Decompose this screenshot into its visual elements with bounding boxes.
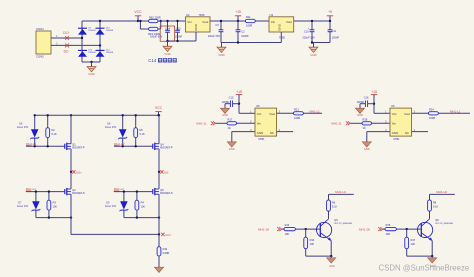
net label MH1-2H [359,227,383,231]
regulator U2 7815 [186,13,211,32]
svg-text:DC-: DC- [64,49,70,53]
svg-text:U6: U6 [391,104,395,108]
svg-text:MH1-2H: MH1-2H [359,228,370,232]
svg-text:5.1K: 5.1K [332,206,337,209]
wire drain Q4 [158,149,160,172]
wire U2 gnd pin [195,32,197,41]
wire [396,228,420,230]
wire [210,20,330,22]
power VCC (bridge) [155,106,163,115]
ground bridge [87,62,96,76]
ground U6 [362,142,371,151]
svg-text:0.68R: 0.68R [163,252,170,255]
transistor Q6 [317,219,353,241]
svg-text:MOSFET-N: MOSFET-N [72,192,85,195]
svg-text:MH1-1L: MH1-1L [196,122,207,126]
net label DC+ [63,31,70,40]
wire R17 bottom [407,249,433,256]
svg-text:MH1-L1: MH1-L1 [310,109,321,113]
resistor R14 [284,223,295,236]
svg-text:C16: C16 [364,97,369,100]
node M1+ [70,171,72,173]
wire [412,131,428,133]
svg-text:GND: GND [329,265,335,268]
regulator U3 7805 [269,13,294,40]
node base [305,228,307,230]
capacitor C10 [303,21,316,43]
ground Q8 [428,256,437,268]
junction [35,190,37,192]
svg-text:R18: R18 [363,117,368,121]
resistor R21 [293,107,303,120]
junction [70,216,72,218]
pin 4 (U6) [385,128,387,132]
capacitor C14 [150,21,170,41]
wire [374,112,390,114]
wire drain Q5 [158,172,160,189]
annotation box C14 [160,26,174,41]
junction [34,114,36,116]
svg-text:+15: +15 [236,90,242,94]
svg-text:GND: GND [164,52,170,56]
svg-text:Q6: Q6 [334,219,338,222]
svg-text:+5: +5 [328,10,332,14]
ground Q6 [327,256,336,268]
resistor R6 [327,200,338,211]
svg-text:Vcc: Vcc [257,112,262,116]
resistor R24 [428,107,438,120]
power +5 [327,10,333,21]
net label MH1-H1 (gate) [26,142,37,146]
svg-text:Zener 15V: Zener 15V [17,205,29,208]
svg-text:GND: GND [218,53,224,57]
wire gnd pin (U5) [232,132,255,142]
svg-text:C11: C11 [332,30,337,33]
wire [51,44,100,46]
junction [166,20,168,22]
svg-text:U5: U5 [256,104,260,108]
net label MH1-H2 (gate) [114,142,125,146]
zener D6 [17,115,39,146]
net label MH1-1L [196,121,215,125]
wire [351,122,363,124]
node CC1 [158,233,160,235]
mosfet Q2 [65,188,85,195]
ground C16 [355,104,364,118]
svg-text:10K: 10K [310,243,315,246]
svg-text:Vin: Vin [392,122,397,126]
net label DC- [64,44,70,54]
junction emitter [431,255,433,257]
svg-text:100NF: 100NF [222,101,230,104]
svg-text:Vin: Vin [257,122,262,126]
junction [47,114,49,116]
node AC1 junction [81,37,83,39]
wire [124,217,159,219]
wire [295,228,319,230]
svg-text:CON1: CON1 [36,27,44,31]
resistor R19 [148,27,160,36]
wire [239,112,255,114]
svg-text:MH1-H1: MH1-H1 [335,190,346,194]
svg-text:M1+: M1+ [76,170,82,174]
svg-text:U3: U3 [270,13,274,17]
node AC2 junction [99,44,101,46]
svg-text:VCC: VCC [134,10,142,14]
svg-text:100NF: 100NF [332,37,340,40]
wire R16 bottom [306,249,332,256]
svg-text:R11: R11 [246,15,251,19]
svg-text:10K: 10K [386,232,391,236]
svg-text:GND: GND [257,131,263,135]
wire [114,191,153,193]
resistor R17 [405,229,416,249]
resistor R8 [428,200,439,211]
junction [122,145,124,147]
wire [303,112,322,114]
ground C15 [220,104,229,118]
net label M1+ [72,170,82,174]
wire [282,228,284,230]
svg-text:GND: GND [194,23,198,31]
junction [176,20,178,22]
resistor R16 [304,229,315,249]
net label MH1-1H [258,227,282,231]
resistor R17 [227,117,237,129]
junction [70,114,72,116]
wire emitter Q8 [431,241,433,257]
connector CON1 [36,27,58,59]
junction [237,20,239,22]
net label MH1-2L [331,121,350,125]
svg-text:Vcc: Vcc [392,112,397,116]
svg-text:U2: U2 [186,13,190,17]
wire [35,114,160,116]
wire [383,228,385,230]
svg-text:CON2: CON2 [36,55,44,59]
junction VCC [137,20,139,22]
wire [99,21,101,62]
net label MH1-L1 [310,109,321,113]
wire [277,112,294,114]
resistor R2 [46,115,57,146]
wire drain Q1 [70,149,72,172]
svg-text:R17: R17 [228,117,233,121]
zener D7 [17,192,40,218]
wire [82,61,100,63]
wire [114,145,153,147]
wire [158,28,161,30]
pin 5 (U6) [385,120,387,124]
wire [237,122,255,124]
driver U5 [255,104,277,141]
svg-text:1N5408: 1N5408 [88,30,96,32]
node M1- [158,171,160,173]
svg-text:Q8: Q8 [435,219,439,222]
resistor R15 [385,223,396,236]
svg-text:MH1-L2: MH1-L2 [450,109,461,113]
ground regulator3 [309,43,318,57]
ground regulator2 [217,43,226,57]
junction [166,40,168,42]
net label MH1-H1 [329,190,354,200]
wire [81,21,83,62]
svg-text:R16: R16 [310,239,315,242]
wire [438,112,470,114]
mosfet Q1 [65,143,85,150]
junction [136,190,138,192]
svg-text:+15: +15 [371,90,377,94]
svg-text:Zener 15V: Zener 15V [105,126,117,129]
wire [412,112,429,114]
wire [26,191,65,193]
junction [311,20,313,22]
wire [372,122,390,124]
capacitor C15 [222,97,239,107]
junction [48,216,50,218]
svg-text:10K: 10K [141,205,146,208]
transistor Q8 [418,219,454,241]
svg-text:NC: NC [405,131,409,135]
net label MH1-L2 (gate) [114,187,124,191]
svg-text:100uF 50V: 100uF 50V [150,36,163,39]
pin 3 (U5) [279,110,281,114]
pin 3 (U6) [414,110,416,114]
svg-text:100NF: 100NF [241,35,249,38]
svg-text:MH1-1H: MH1-1H [258,228,269,232]
svg-text:+15: +15 [235,10,241,14]
svg-text:1K: 1K [228,126,231,130]
wire source Q2 [70,194,72,234]
net label M1- [160,170,169,174]
svg-text:7815: 7815 [199,13,205,17]
pin 2 (U6) [414,128,416,132]
junction [139,20,141,22]
junction VCC rail [157,114,159,116]
wire [168,40,197,42]
pin 2 (U5) [279,128,281,132]
ground regulator1 [163,46,172,56]
capacitor C2 [236,21,250,43]
junction [136,216,138,218]
junction top rail [99,20,101,22]
svg-text:GND: GND [222,113,228,117]
svg-text:Vin: Vin [271,20,276,24]
svg-text:1N5408: 1N5408 [88,52,96,54]
diode D5 [78,28,96,35]
svg-text:GND: GND [364,147,370,151]
svg-text:100uF 25V: 100uF 25V [208,35,221,38]
svg-text:MOSFET-N: MOSFET-N [160,192,173,195]
svg-text:CSDN @SunShineBreeze: CSDN @SunShineBreeze [379,263,470,272]
junction emitter [330,255,332,257]
zener D8 [105,115,127,146]
svg-text:R15: R15 [386,223,391,227]
svg-text:MOSFET-P: MOSFET-P [160,147,173,150]
junction [48,190,50,192]
resistor R52 [149,15,161,22]
svg-text:R14: R14 [285,223,290,227]
wire source Q1 [70,115,72,143]
wire drain Q2 [70,172,72,189]
junction [176,40,178,42]
junction [135,114,137,116]
junction [122,114,124,116]
svg-text:5.1K: 5.1K [140,133,145,136]
mosfet Q5 [153,188,173,195]
resistor R4 [135,192,145,218]
svg-text:GND: GND [392,131,398,135]
svg-text:C15: C15 [229,97,234,100]
svg-text:R21: R21 [294,107,299,111]
junction [237,41,239,43]
wire common source rail [71,233,159,235]
svg-text:1K: 1K [363,126,366,130]
svg-text:VCC: VCC [155,106,163,110]
annotation text C14 reserved [148,58,176,63]
junction [373,103,375,105]
junction [311,41,313,43]
power VCC [134,10,142,21]
capacitor C3 [208,21,224,43]
svg-text:MOSFET-P: MOSFET-P [72,147,85,150]
svg-text:220uF 16V: 220uF 16V [303,37,316,40]
junction [238,103,240,105]
svg-text:5.1K: 5.1K [433,206,438,209]
svg-text:10K: 10K [411,243,416,246]
resistor R11 [245,15,255,27]
wire [36,217,71,219]
wire U3 gnd pin [280,32,282,43]
wire collector Q8 [429,211,431,219]
net label CC1 [161,233,171,237]
diode D12 [96,50,114,57]
svg-text:R10: R10 [163,248,168,251]
net label MH1-L2 [450,109,461,113]
svg-text:100NF: 100NF [175,36,183,39]
svg-text:CC1: CC1 [165,233,171,237]
junction [34,145,36,147]
svg-text:C14: C14 [165,28,170,31]
svg-text:R24: R24 [429,107,434,111]
watermark [379,263,470,272]
zener D9 [105,192,128,218]
svg-text:GND: GND [357,113,363,117]
resistor R3 [47,192,57,218]
wire [158,20,186,22]
wire [277,131,293,133]
net label MH1-L1 (gate) [26,187,36,191]
junction bottom rail [90,61,92,63]
resistor R18 [362,117,372,129]
pin 1 (U6) [385,110,387,114]
wire emitter Q6 [330,241,332,257]
driver U6 [390,104,412,141]
junction [123,190,125,192]
svg-text:R17: R17 [411,239,416,242]
wire collector Q6 [328,211,330,219]
svg-text:R52 100R: R52 100R [149,15,161,19]
wire [26,145,65,147]
resistor R5 [134,115,145,146]
junction [160,20,162,22]
svg-text:Vout: Vout [286,20,292,24]
svg-text:Vin: Vin [187,20,192,24]
svg-text:C14: C14 [148,58,157,63]
wire [216,122,228,124]
svg-text:GND: GND [278,23,282,31]
capacitor C16 [357,97,374,107]
svg-text:1N5408: 1N5408 [106,30,114,32]
junction [329,20,331,22]
wire source Q4 [158,115,160,143]
svg-text:5.1K: 5.1K [52,133,57,136]
junction [47,145,49,147]
junction [158,216,160,218]
capacitor C13 [175,21,183,41]
diode D10 [96,28,114,35]
svg-text:NC: NC [270,131,274,135]
ground U5 [227,142,236,151]
junction [135,145,137,147]
svg-text:Zener 15V: Zener 15V [105,205,117,208]
svg-text:100R: 100R [294,116,300,120]
svg-text:100R: 100R [246,23,252,27]
svg-text:10K: 10K [53,205,58,208]
svg-text:MH1-H2: MH1-H2 [436,190,447,194]
pin 1 (U5) [250,110,252,114]
net label MH1-H2 [430,190,455,200]
wire [160,21,162,29]
mosfet Q4 [153,143,173,150]
svg-text:N551: N551 [259,138,266,141]
svg-text:100NF: 100NF [357,101,365,104]
node base [406,228,408,230]
svg-text:Vout: Vout [269,112,275,116]
wire [139,21,141,29]
wire [140,28,148,30]
svg-text:SOT-23_SS8050M: SOT-23_SS8050M [334,223,352,225]
svg-text:N551: N551 [394,138,401,141]
svg-text:1N5408: 1N5408 [106,52,114,54]
wire [167,41,169,46]
svg-text:SOT-23_SS8050M: SOT-23_SS8050M [435,223,453,225]
wire [221,42,281,44]
ground R10 [154,256,163,273]
svg-text:100R: 100R [429,116,435,120]
power +15 [235,10,241,21]
junction [220,20,222,22]
diode D11 [78,50,96,57]
pin 4 (U5) [250,128,252,132]
wire source Q5 [158,194,160,234]
svg-text:10K: 10K [285,232,290,236]
junction [158,114,160,116]
svg-text:MH1-2L: MH1-2L [331,122,342,126]
svg-text:M1-: M1- [164,170,169,174]
capacitor C11 [328,21,340,43]
wire [312,42,330,44]
wire [138,20,149,22]
power +15 (U5) [236,90,242,114]
wire [51,37,82,39]
svg-text:Zener 15V: Zener 15V [17,126,29,129]
power +15 (U6) [371,90,377,114]
svg-text:GND: GND [88,72,94,76]
svg-text:C13: C13 [176,28,181,31]
svg-text:DC+: DC+ [63,31,70,35]
svg-text:C10: C10 [304,30,309,33]
